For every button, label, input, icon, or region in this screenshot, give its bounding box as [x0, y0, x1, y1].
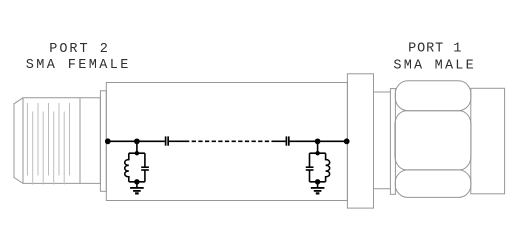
- capacitor C3 shunt: [144, 153, 146, 167]
- node shunt 1 bottom dot: [135, 180, 139, 184]
- collar between nut and body: [100, 91, 106, 192]
- wire shunt 2 ground stem: [317, 182, 319, 188]
- hex nut bottom facet: [395, 170, 471, 198]
- node right end dot: [345, 139, 349, 143]
- right flange: [347, 74, 373, 208]
- wire shunt 1 stem: [136, 141, 138, 153]
- wire shunt 2 stem: [317, 141, 319, 153]
- capacitor C1 series plates: [165, 136, 167, 145]
- wire shunt 1 bottom bar: [129, 181, 145, 183]
- hex washer ring: [390, 89, 395, 195]
- wire after C1: [169, 140, 185, 142]
- node shunt 2 top dot: [316, 152, 319, 155]
- SMA female knurled nut outline: [14, 98, 100, 184]
- ground G2: [311, 187, 325, 189]
- wire before C2: [272, 140, 286, 142]
- capacitor C2 series plates: [285, 136, 287, 145]
- node left end dot: [106, 139, 110, 143]
- hex nut middle facet: [395, 111, 471, 170]
- wire dashed transmission line: [185, 140, 272, 142]
- svg-text:PORT 1: PORT 1: [408, 42, 461, 57]
- main body: [106, 83, 347, 201]
- inductor L2: [326, 153, 330, 182]
- node shunt 1 top dot: [135, 152, 138, 155]
- wire shunt 2 bottom bar: [310, 181, 326, 183]
- threaded barrel: [471, 88, 505, 194]
- inductor L1: [125, 153, 129, 182]
- capacitor C4 shunt: [309, 153, 311, 167]
- ground G1: [130, 187, 144, 189]
- wire shunt 1 ground stem: [136, 182, 138, 188]
- node junction J2 dot: [316, 139, 320, 143]
- wire left segment: [107, 140, 165, 142]
- node shunt 2 bottom dot: [316, 180, 320, 184]
- wire shunt 2 top bar: [310, 152, 326, 154]
- hex nut top facet: [395, 81, 471, 111]
- node junction J1 dot: [135, 139, 139, 143]
- wire shunt 1 top bar: [129, 152, 145, 154]
- neck between flange and hex: [374, 92, 391, 189]
- knurl texture lines: [27, 103, 69, 185]
- wire right segment: [290, 140, 348, 142]
- schematic: [106, 136, 349, 193]
